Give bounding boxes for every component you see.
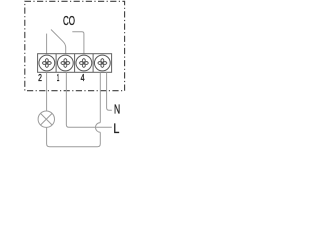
wire: riser up to unlabeled terminal [99,72,101,122]
terminal dividers [55,54,57,73]
wire hop over L line [96,123,101,133]
svg-text:4: 4 [81,73,85,84]
screw terminal 1 [57,55,73,71]
switch: terminal 2 riser (fixed contact side) [46,34,48,54]
svg-text:L: L [113,121,119,136]
screw terminal (unlabeled, right) [94,55,110,71]
svg-text:2: 2 [38,73,42,84]
wire: terminal 2 down to lamp [46,72,48,111]
terminal strip outer box [38,54,112,73]
screw terminal 4 [76,55,92,71]
switch: terminal 4 fixed contact L-line [72,32,84,54]
wire: N branch [107,72,112,110]
svg-text:N: N [114,103,120,117]
svg-text:1: 1 [57,73,60,84]
wire: lamp down, along bottom, up to right riser [47,127,101,146]
lamp symbol [38,111,54,127]
svg-text:CO: CO [63,13,75,28]
device enclosure (dash-dot border) [25,1,125,90]
switch blade (common, terminal 1) [51,30,66,54]
screw terminal 2 [39,55,55,71]
wire: terminal 1 down and right to L [66,72,111,127]
